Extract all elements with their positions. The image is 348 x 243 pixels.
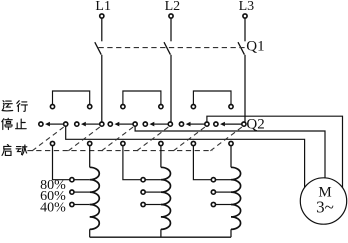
svg-text:L1: L1 — [95, 0, 111, 14]
svg-text:Q2: Q2 — [246, 117, 264, 133]
svg-text:40%: 40% — [40, 200, 66, 215]
svg-text:Q1: Q1 — [246, 39, 264, 55]
svg-text:3~: 3~ — [316, 198, 334, 217]
svg-text:L2: L2 — [165, 0, 181, 14]
svg-text:L3: L3 — [239, 0, 255, 14]
